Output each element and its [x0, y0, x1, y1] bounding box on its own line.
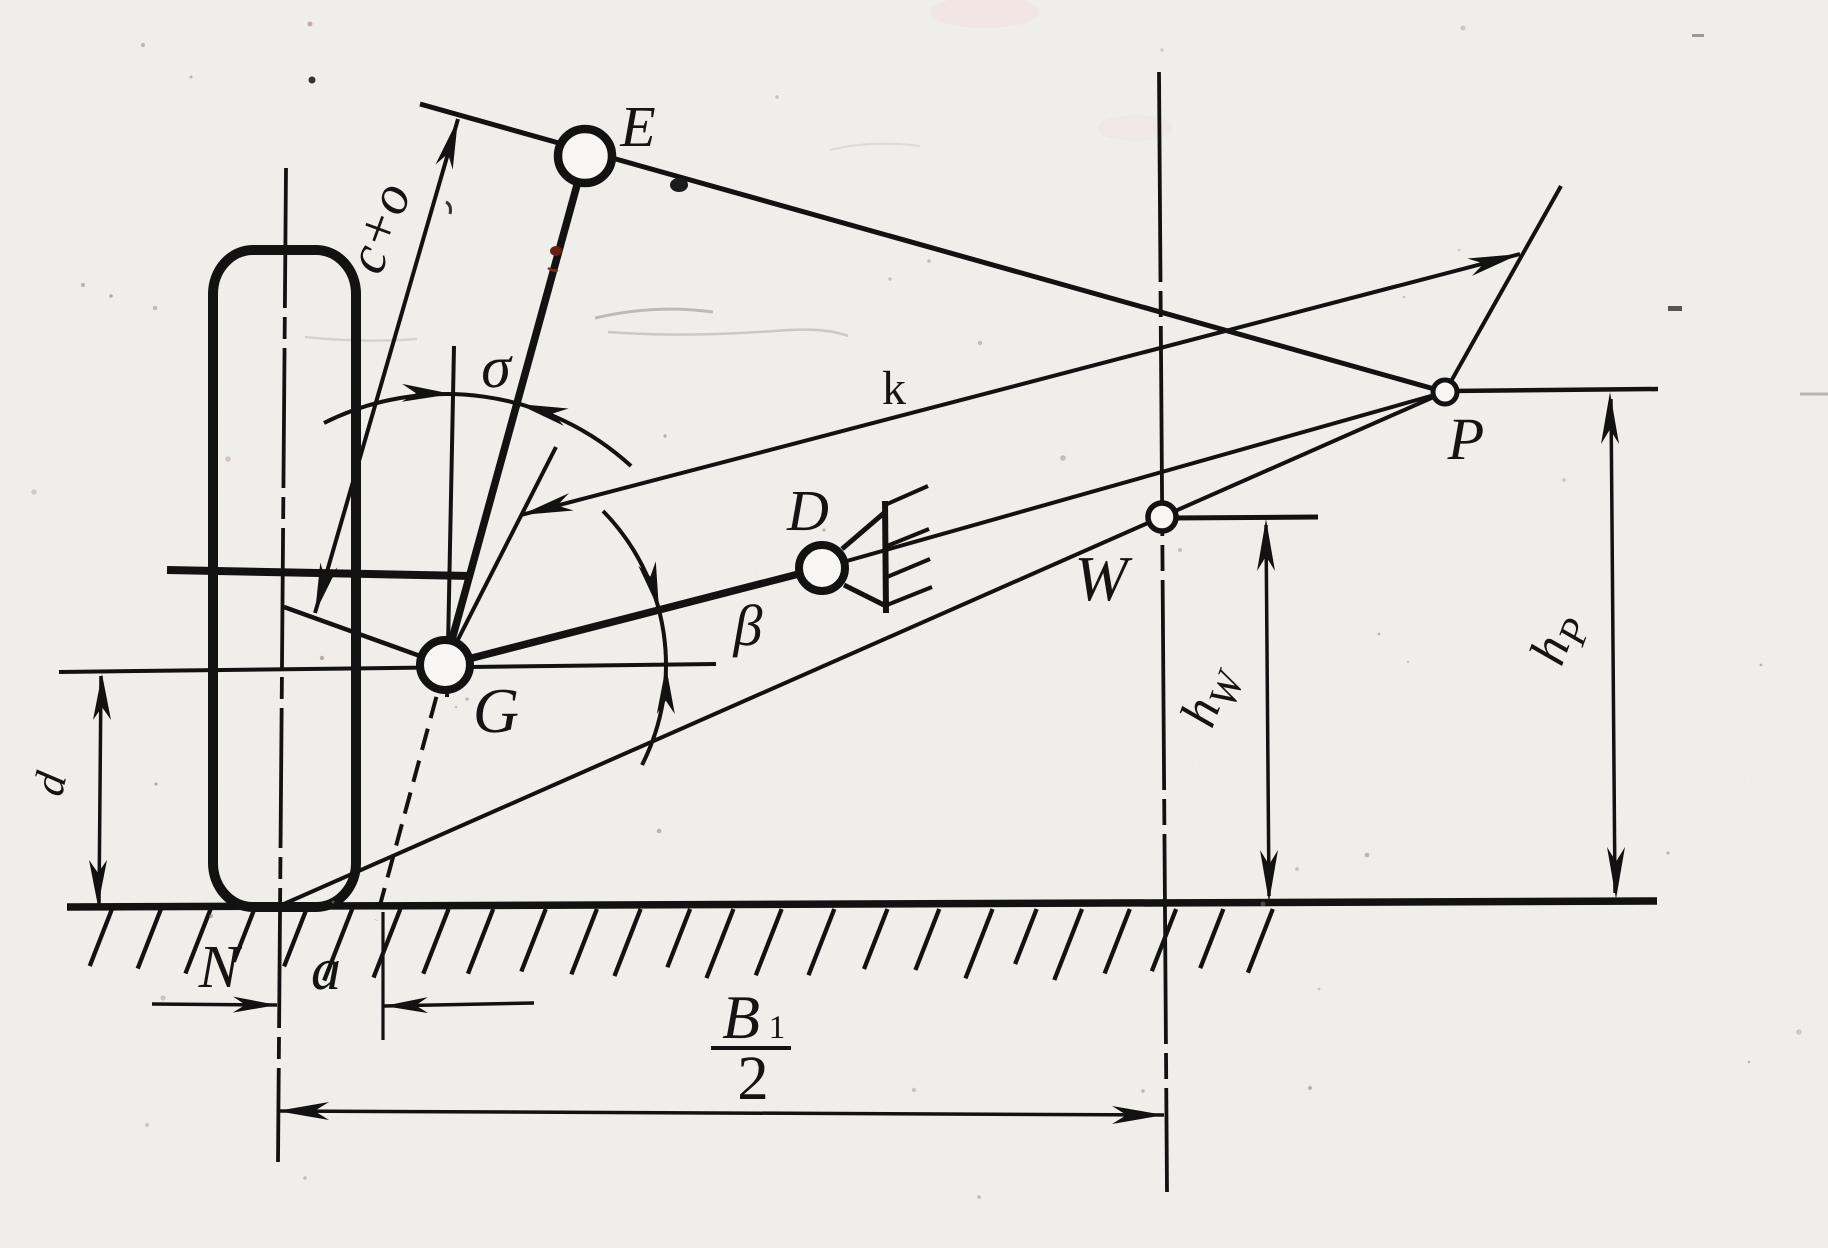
svg-text:σ: σ	[481, 334, 513, 400]
svg-text:W: W	[1074, 543, 1133, 614]
svg-text:G: G	[473, 675, 519, 746]
svg-text:1: 1	[769, 1010, 786, 1046]
svg-text:k: k	[882, 362, 906, 415]
svg-text:B: B	[722, 984, 760, 1052]
svg-text:D: D	[786, 478, 829, 543]
svg-text:2: 2	[737, 1043, 769, 1113]
svg-text:a: a	[311, 936, 341, 1002]
svg-text:E: E	[619, 94, 655, 159]
svg-text:β: β	[733, 593, 763, 658]
svg-text:P: P	[1447, 406, 1485, 472]
svg-text:N: N	[198, 934, 243, 1001]
